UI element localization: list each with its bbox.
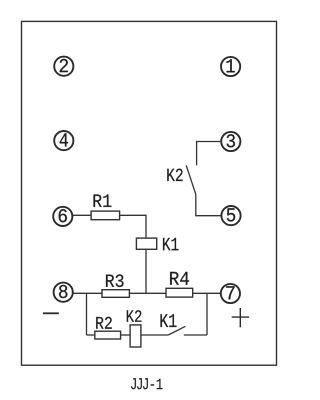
resistor R1 [91,211,120,220]
wire terminal8 to R3 [73,292,102,294]
terminal 3 [221,132,240,151]
polarity minus [43,312,59,314]
node branch right [206,293,208,335]
terminal 5 [221,206,240,225]
model label JJJ-1 [131,378,163,389]
wire R3 to R4 [129,292,166,294]
switch contact K1 blade [168,326,185,335]
terminal 1 [221,57,240,76]
wire R1 to K1 coil [120,215,146,238]
switch contact K2 blade [186,165,196,194]
terminal 2 [54,57,73,76]
wire K1 coil to node [145,249,147,293]
terminal 6 [53,207,72,226]
terminal 8 [54,283,73,302]
node branch left [86,293,88,335]
label K2 (contact) [167,169,182,181]
wire terminal6 to R1 [72,214,91,216]
label K1 (contact) [160,314,176,327]
label R2 [96,317,112,329]
resistor R4 [166,288,193,297]
polarity plus [232,308,249,327]
wire K1 contact to node [184,334,207,336]
label R3 [106,274,124,287]
terminal 4 [54,131,73,150]
label R1 [94,195,112,207]
coil K2 [130,325,141,347]
resistor R2 [95,331,121,339]
resistor R3 [102,290,129,298]
label K1 (coil) [163,238,179,250]
wire R2 to K2 coil [121,334,131,336]
wire R4 to terminal 7 [193,292,221,294]
wire node to R2 [87,334,95,336]
wire K2 coil to K1 contact [141,334,168,336]
terminal 7 [221,284,240,303]
wire terminal3 to K2 contact [197,142,222,166]
label R4 [170,272,189,285]
wire K2 contact to terminal 5 [196,194,222,215]
coil K1 [136,238,156,249]
label K2 (coil) [127,310,142,322]
border frame [22,21,277,365]
